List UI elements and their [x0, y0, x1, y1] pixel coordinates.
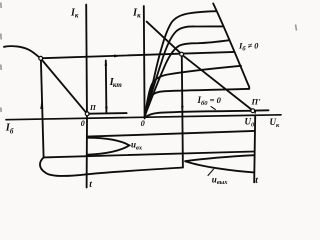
svg-text:Iк: Iк: [70, 8, 79, 20]
curve u_vx left lobe and guide D: [40, 157, 183, 176]
svg-text:t: t: [255, 176, 258, 186]
arrowhead up on left projection: [40, 99, 43, 109]
curve cutoff characteristic I_b0=0: [145, 111, 251, 118]
wire left projection line down: [41, 60, 44, 157]
node P' cutoff point circle: [251, 109, 255, 113]
wire right vertical axis I_k: [143, 6, 146, 118]
arrowhead up I_kt: [105, 59, 108, 66]
svg-text:t: t: [89, 180, 92, 190]
curve output char 3: [145, 40, 230, 116]
wire right projection line down: [182, 56, 183, 167]
curve output char 4 below: [145, 66, 241, 117]
node P cutoff point circle: [85, 112, 89, 116]
curve u_vyx lobe top: [185, 155, 254, 161]
wire cutoff extension right of P': [255, 109, 269, 111]
svg-text:U0: U0: [245, 117, 256, 129]
curve output char 1 top: [145, 11, 217, 114]
svg-text:П': П': [251, 97, 262, 107]
wire guide line A saturation level to t axis: [87, 131, 254, 137]
wire right time axis t: [254, 116, 255, 183]
wire I_kt double arrow: [105, 61, 108, 113]
curve input transfer characteristic: [4, 46, 39, 57]
svg-text:uвых: uвых: [212, 174, 228, 186]
svg-text:Iб0 = 0: Iб0 = 0: [197, 95, 222, 107]
arrowhead down I_kt: [105, 107, 108, 114]
wire guide line C cutoff level: [44, 152, 254, 158]
wire pointer tick Ib0 label: [211, 107, 215, 110]
svg-text:0: 0: [81, 119, 85, 128]
curve u_vx right lobe: [87, 138, 129, 155]
wire right load line lower: [183, 56, 251, 110]
svg-text:uвх: uвх: [131, 140, 143, 152]
svg-text:Uк: Uк: [270, 117, 281, 129]
arrowhead down at U0: [254, 110, 257, 115]
wire left vertical axis I_k / t: [85, 5, 88, 188]
wire saturation level line (to right diagram): [43, 52, 235, 58]
node saturation point circle right: [180, 52, 184, 56]
wire left load line: [42, 60, 86, 112]
svg-text:Iб ≠ 0: Iб ≠ 0: [238, 41, 258, 53]
svg-text:Iкт: Iкт: [109, 77, 123, 89]
curve output char 2: [145, 26, 224, 115]
svg-text:Iб: Iб: [5, 122, 14, 135]
arrowhead down right projection: [181, 106, 184, 113]
node left operating point circle: [39, 56, 43, 60]
edge scan marks: [1, 3, 297, 113]
wire right load line upper: [147, 22, 181, 53]
curve u_vyx lobe bottom: [185, 161, 254, 172]
wire pointer tick u_vyx label: [208, 169, 214, 175]
svg-text:Iк: Iк: [132, 8, 141, 20]
arrowhead right on saturation line: [114, 55, 122, 58]
wire main horizontal axis (I_b / U_k baseline): [6, 115, 281, 120]
curve right boundary slant: [213, 4, 249, 89]
curve output char 5 lower: [145, 89, 250, 117]
svg-text:П: П: [89, 103, 97, 112]
wire P level line: [89, 112, 127, 115]
svg-text:0: 0: [141, 119, 145, 128]
